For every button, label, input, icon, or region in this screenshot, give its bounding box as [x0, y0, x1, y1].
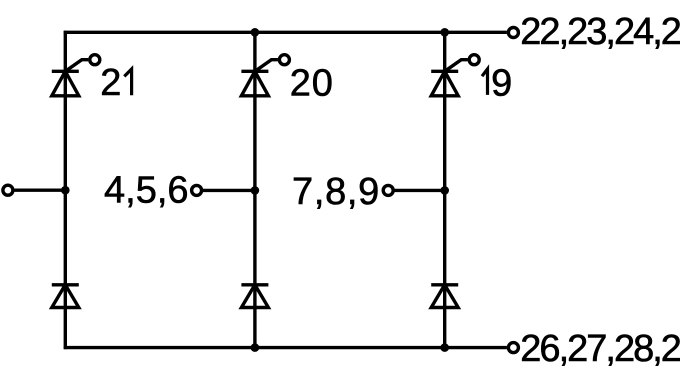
- svg-text:26,27,28,29: 26,27,28,29: [520, 328, 680, 370]
- svg-text:7,8,9: 7,8,9: [292, 171, 380, 213]
- svg-text:2: 2: [100, 62, 121, 104]
- svg-text:22,23,24,25: 22,23,24,25: [520, 11, 680, 53]
- svg-text:9: 9: [491, 62, 512, 104]
- svg-text:0: 0: [312, 63, 333, 105]
- svg-text:2: 2: [290, 63, 311, 105]
- svg-text:4,5,6: 4,5,6: [104, 170, 189, 212]
